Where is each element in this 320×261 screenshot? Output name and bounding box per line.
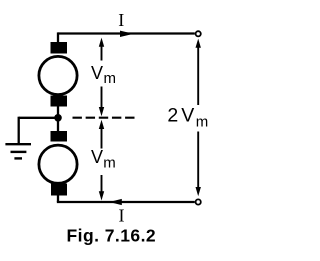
- svg-text:I: I: [119, 205, 125, 225]
- label 2 Vm: [167, 104, 208, 130]
- current arrow I top (pointing right): [120, 31, 134, 37]
- dimension arrow 2Vm right (double headed): [196, 39, 201, 197]
- wire junction to machine M2 lead: [57, 118, 59, 132]
- svg-text:V: V: [91, 147, 103, 167]
- label Vm upper: [91, 63, 116, 87]
- wire M2 bottom lead: [57, 195, 59, 202]
- wire M1 bottom lead to junction: [57, 106, 59, 118]
- svg-text:m: m: [104, 70, 117, 87]
- dc machine M2 bottom brush: [51, 184, 67, 196]
- terminal node bottom (open circle): [196, 199, 201, 204]
- wire junction to ground horizontal: [19, 117, 58, 119]
- dashed centre line: [73, 117, 135, 119]
- svg-text:I: I: [118, 10, 124, 30]
- wire top horizontal: [58, 32, 195, 34]
- terminal node top (open circle): [196, 31, 201, 36]
- dc machine M2 top brush: [51, 131, 68, 142]
- label Vm lower: [91, 147, 116, 171]
- junction node dot: [54, 114, 62, 122]
- dimension arrow Vm upper (double headed): [99, 38, 104, 117]
- dimension arrow Vm lower (double headed): [99, 120, 104, 201]
- dc machine M1 bottom brush: [51, 96, 68, 107]
- ground symbol: [5, 144, 31, 158]
- dc machine M1 top brush: [51, 42, 68, 54]
- svg-text:m: m: [103, 154, 116, 171]
- svg-text:V: V: [91, 63, 103, 83]
- svg-text:m: m: [196, 114, 209, 131]
- current arrow I bottom (pointing left): [109, 199, 122, 205]
- svg-text:2: 2: [167, 104, 178, 126]
- svg-text:V: V: [181, 104, 194, 126]
- wire machine M1 top lead: [57, 32, 59, 43]
- svg-text:Fig. 7.16.2: Fig. 7.16.2: [67, 226, 157, 246]
- wire bottom horizontal: [57, 201, 195, 203]
- wire ground vertical stub: [18, 117, 20, 145]
- dc machine M1 armature circle: [39, 56, 77, 94]
- dc machine M2 armature circle: [39, 145, 77, 183]
